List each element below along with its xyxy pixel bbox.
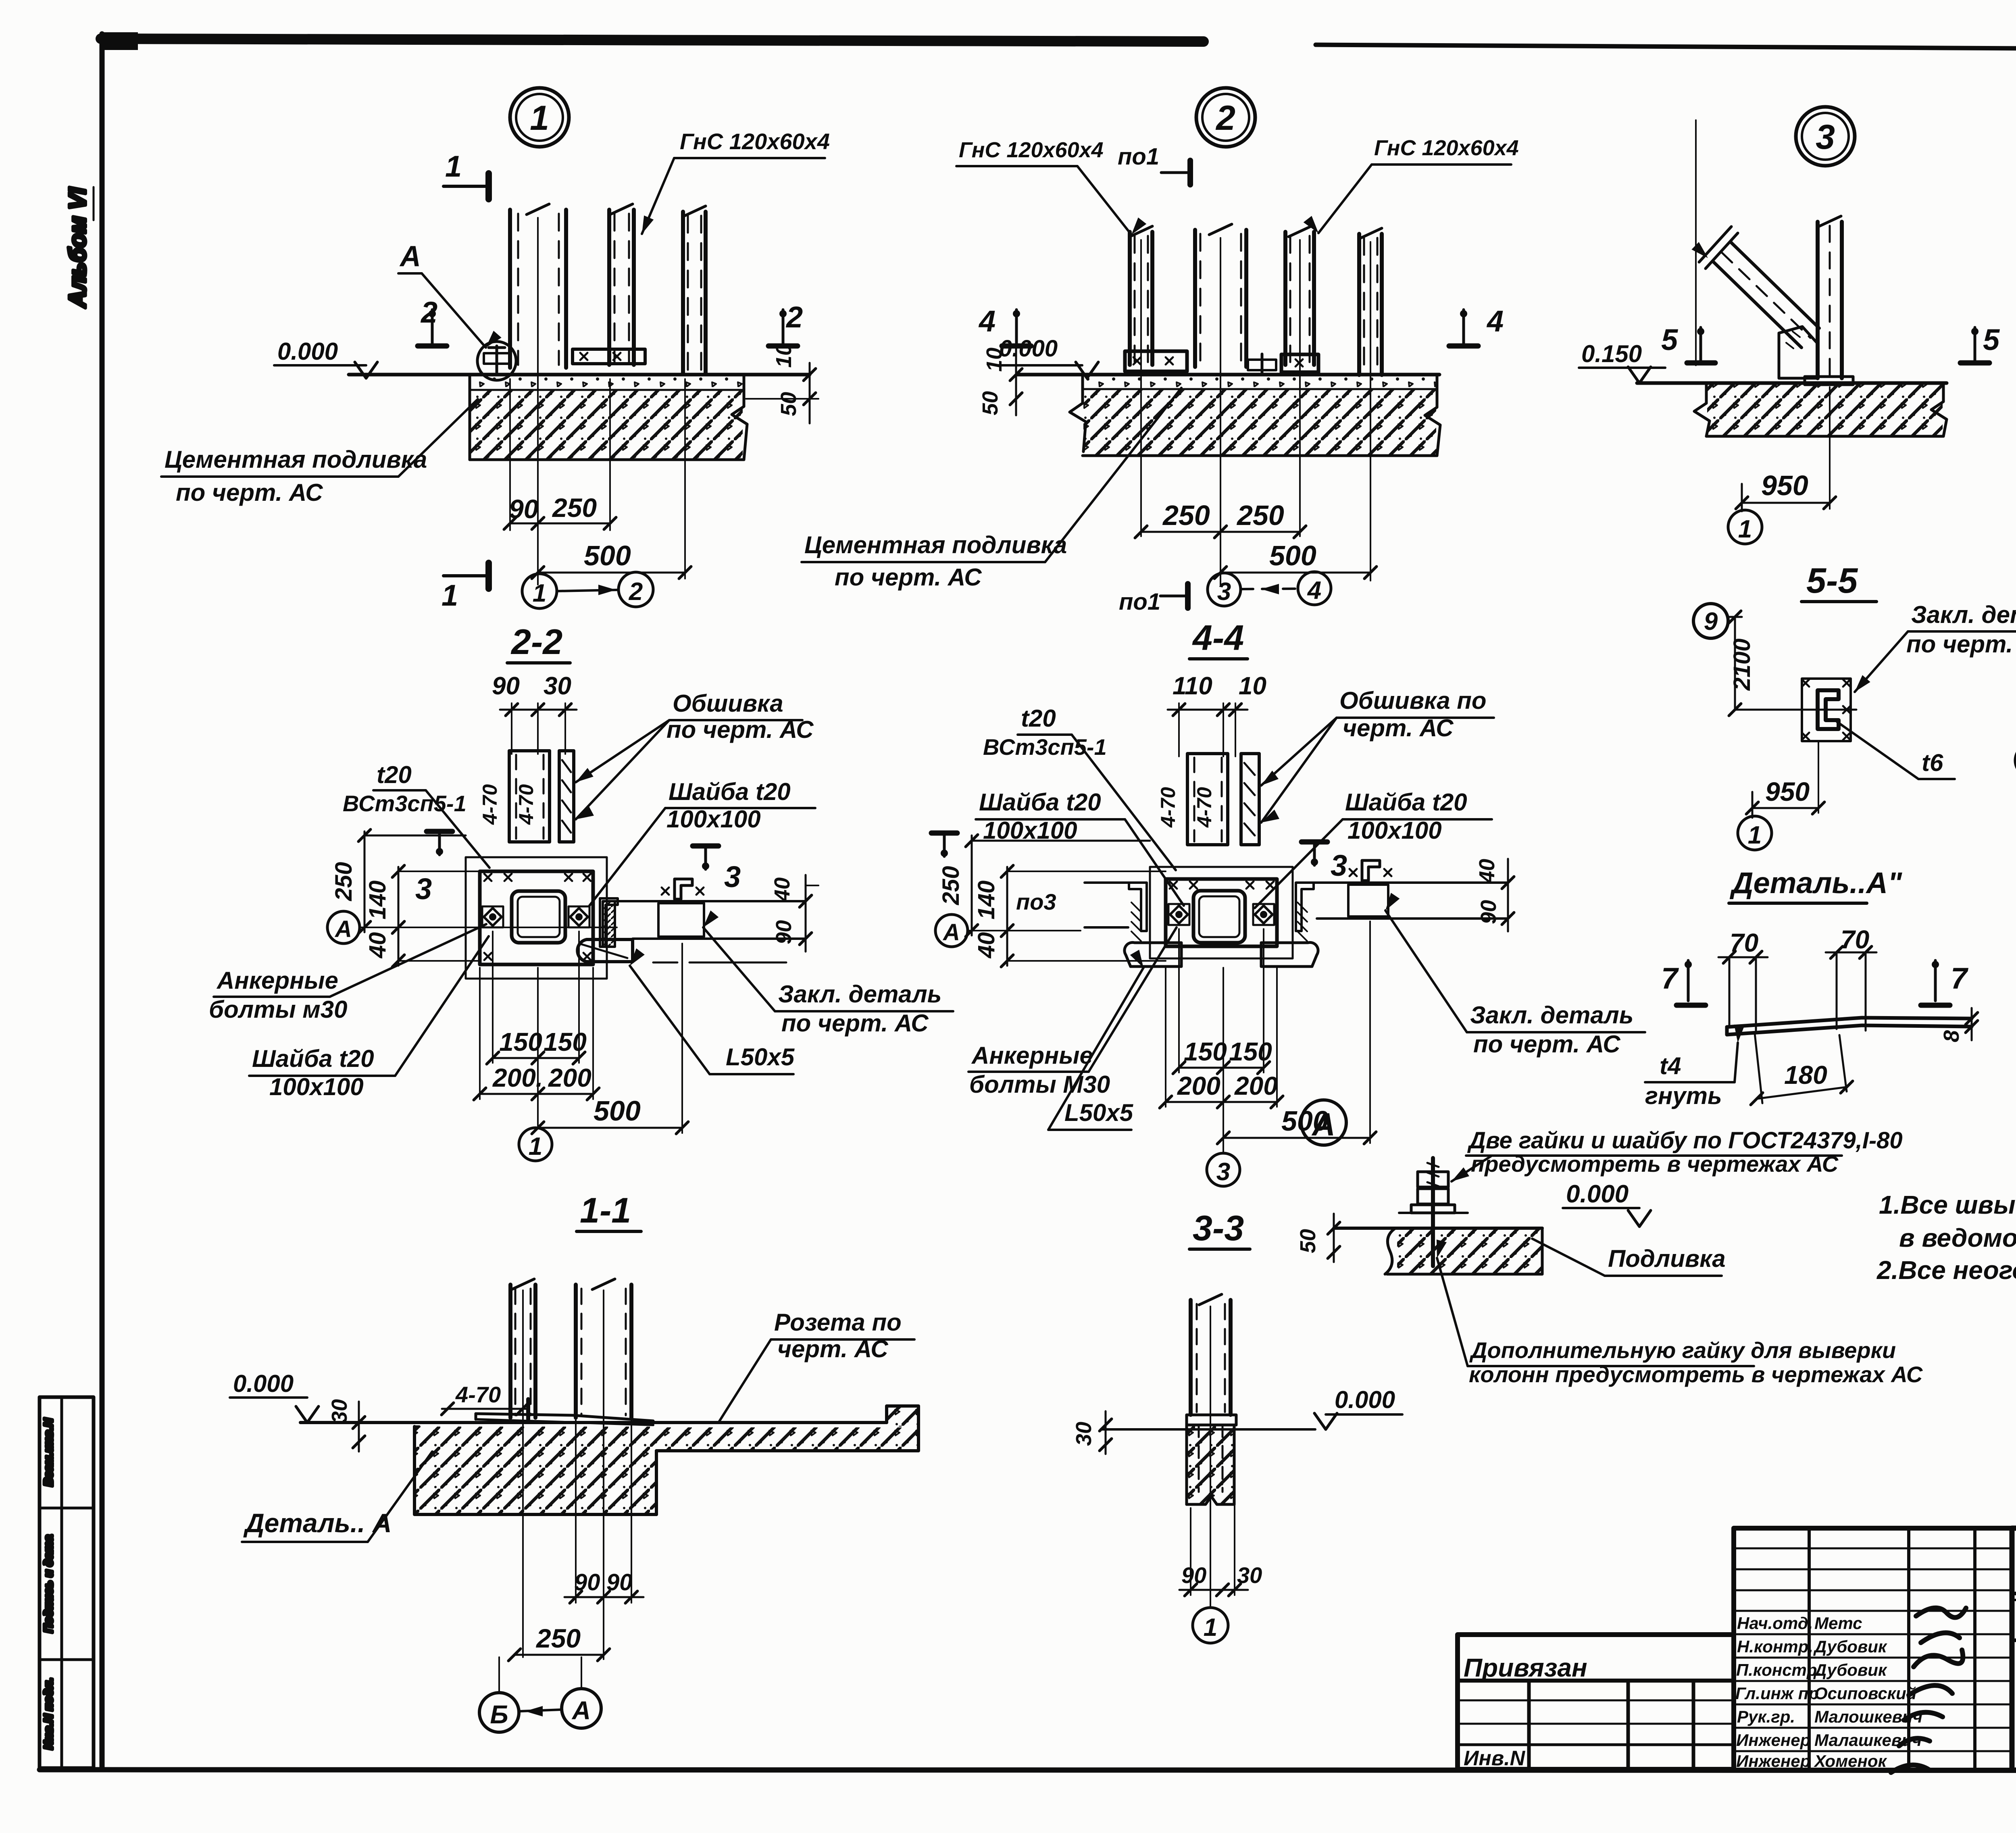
embedded plate (5-5) (1802, 679, 1851, 741)
svg-text:5-5: 5-5 (1806, 560, 1858, 600)
column axis middle (detail 2) (1220, 238, 1221, 585)
svg-text:П.констр.: П.констр. (1736, 1660, 1822, 1679)
svg-text:250: 250 (535, 1623, 581, 1653)
dimension 500 (4-4) (1369, 921, 1371, 1143)
svg-text:500: 500 (584, 540, 631, 571)
svg-text:100х100: 100х100 (269, 1073, 364, 1100)
dimension 90 30 above column (2-2) (511, 703, 512, 754)
embedded plate in plan (2-2) (658, 903, 704, 937)
svg-text:50: 50 (777, 392, 801, 416)
svg-text:4-4: 4-4 (1192, 618, 1244, 658)
svg-text:Инженер: Инженер (1736, 1731, 1810, 1750)
title band TP901 (2012, 1592, 2016, 1596)
svg-text:100х100: 100х100 (666, 806, 761, 833)
column (detail 3) (1816, 222, 1820, 378)
section mark 3 top (4-4) (931, 831, 957, 836)
svg-text:по3: по3 (1016, 889, 1056, 914)
svg-text:ВСт3сп5-1: ВСт3сп5-1 (343, 791, 467, 816)
svg-text:Анкерные: Анкерные (216, 967, 338, 994)
column axis 1 (537, 218, 539, 585)
svg-text:10: 10 (1239, 672, 1266, 700)
svg-text:200: 200 (548, 1063, 591, 1092)
embedded angle right (4-4) (1296, 883, 1314, 931)
svg-text:250: 250 (331, 862, 357, 902)
dimension 950 (5-5) (1818, 741, 1819, 813)
dimension 250 (1-1) (514, 1654, 604, 1656)
svg-text:Взам.инв.N: Взам.инв.N (42, 1418, 55, 1486)
foundation pier (1-1) (415, 1427, 656, 1514)
svg-text:250: 250 (1162, 500, 1210, 531)
svg-text:А: А (334, 916, 352, 942)
svg-text:Закл. деталь: Закл. деталь (1470, 1002, 1633, 1029)
dimension 180 (detail A) (1755, 1033, 1762, 1103)
node marker circle 3 (1796, 107, 1855, 166)
svg-text:7: 7 (1951, 962, 1969, 995)
svg-text:5: 5 (1661, 323, 1679, 356)
left margin stamp boxes (40, 1397, 94, 1768)
base plate under column 2 (573, 349, 645, 364)
svg-text:по черт. АС: по черт. АС (1473, 1031, 1621, 1058)
svg-text:3: 3 (1217, 578, 1231, 606)
floor slab lines left (4-4) (1085, 881, 1129, 884)
svg-text:3: 3 (1216, 1158, 1230, 1186)
grid bubble 3 (4-4) (1207, 1153, 1240, 1186)
grid bubble 3 (detail 2) (1208, 573, 1241, 606)
sheet bottom border (40, 1770, 2016, 1771)
dimension 250 250 (detail 2) (1141, 531, 1300, 533)
svg-text:Инженер: Инженер (1736, 1752, 1810, 1771)
svg-text:4: 4 (1486, 304, 1504, 338)
svg-text:Привязан: Привязан (1464, 1653, 1587, 1682)
svg-text:по черт. АС: по черт. АС (781, 1010, 929, 1037)
anchor bolt with nuts (node A) (1431, 1158, 1435, 1266)
column tube in plan (2-2) (512, 891, 565, 943)
svg-text:L50х5: L50х5 (726, 1044, 795, 1071)
dimension 110 10 above column (4-4) (1178, 703, 1180, 756)
channel symbol on slab (4-4) (1362, 860, 1380, 881)
svg-text:Обшивка по: Обшивка по (1339, 687, 1487, 714)
svg-text:Инв.N: Инв.N (1464, 1747, 1526, 1770)
left dims 250 140 40 (4-4) (971, 835, 973, 935)
grid bubble 1 (detail 1) (522, 574, 557, 608)
svg-text:по черт. АС: по черт. АС (835, 564, 982, 591)
svg-text:200.: 200. (492, 1063, 543, 1092)
svg-text:Деталь..А": Деталь..А" (1729, 866, 1902, 900)
vertical dimension 2100 (5-5) (1728, 616, 1742, 618)
svg-text:2-2: 2-2 (510, 622, 562, 662)
svg-text:А: А (1311, 1106, 1335, 1142)
svg-text:90: 90 (772, 920, 796, 944)
svg-text:200: 200 (1234, 1071, 1278, 1100)
cement grout strip (detail 1) (470, 376, 744, 390)
svg-text:Нач.отд.: Нач.отд. (1737, 1614, 1813, 1633)
svg-text:Деталь.. А: Деталь.. А (243, 1508, 392, 1538)
link line between bubbles 3-4 (1241, 589, 1297, 589)
svg-text:150: 150 (1229, 1037, 1272, 1066)
svg-text:Две гайки и шайбу по ГОСТ24379: Две гайки и шайбу по ГОСТ24379,I-80 (1467, 1127, 1903, 1154)
svg-text:А: А (571, 1696, 591, 1725)
link line between bubbles 1-2 (557, 590, 618, 591)
svg-text:1: 1 (1738, 515, 1752, 543)
svg-text:40: 40 (1475, 859, 1499, 883)
svg-text:180: 180 (1784, 1060, 1827, 1089)
svg-text:Шайба t20: Шайба t20 (1345, 789, 1467, 816)
svg-text:100х100: 100х100 (1347, 817, 1442, 844)
ground line (node A) (1334, 1227, 1542, 1230)
svg-text:t20: t20 (1021, 705, 1056, 732)
svg-text:Обшивка: Обшивка (673, 690, 783, 717)
svg-text:90: 90 (1477, 900, 1501, 924)
svg-text:1: 1 (1748, 821, 1762, 849)
svg-text:А: А (399, 240, 421, 273)
grid bubble 1 (5-5) (1738, 816, 1772, 850)
svg-text:950: 950 (1765, 777, 1810, 806)
svg-text:t6: t6 (1922, 749, 1943, 776)
column channel 1 of detail 1 (508, 210, 512, 368)
concrete foundation (detail 1) (471, 390, 743, 460)
svg-text:Розета по: Розета по (774, 1309, 902, 1336)
svg-text:4-70: 4-70 (515, 784, 537, 825)
svg-text:0.000: 0.000 (1566, 1180, 1629, 1208)
svg-text:3: 3 (1816, 118, 1835, 156)
column wide middle (detail 2) (1193, 230, 1197, 367)
svg-text:0.000: 0.000 (233, 1370, 294, 1397)
svg-text:50: 50 (978, 391, 1002, 415)
svg-text:1: 1 (529, 1133, 542, 1160)
svg-text:30: 30 (544, 672, 571, 700)
privyazan stamp table (1458, 1635, 1734, 1769)
svg-text:Альбом VI: Альбом VI (65, 187, 91, 308)
svg-text:1.Все швы назначать по усилиям: 1.Все швы назначать по усилиям, указанны… (1879, 1190, 2016, 1219)
grid bubble 1 (2-2) (519, 1128, 552, 1161)
node detail marker circle A (1301, 1100, 1346, 1145)
column axis 4 (detail 2) (1370, 242, 1371, 581)
svg-text:140: 140 (973, 881, 1000, 920)
svg-text:5: 5 (1983, 323, 2000, 356)
embedded detail plate below right (4-4) (1261, 942, 1318, 966)
svg-text:Шайба t20: Шайба t20 (669, 778, 791, 805)
column channel 2 of detail 1 (607, 210, 611, 365)
dimension 150 150 (2-2) (492, 931, 494, 1063)
right dims 40 90 (2-2) (805, 875, 807, 952)
dimension 200 200 (4-4) (1165, 968, 1166, 1107)
svg-text:в ведомости элементов, остальн: в ведомости элементов, остальные kf 4мм. (1899, 1223, 2016, 1252)
top-left corner blob (101, 32, 138, 50)
dimension 200 200 (2-2) (479, 968, 481, 1099)
base plate (3-3) (1187, 1415, 1236, 1425)
svg-text:по1: по1 (1118, 144, 1159, 170)
grid axis line (detail 3) (1695, 120, 1697, 365)
ground line (detail 2) (1017, 373, 1439, 377)
embedded detail plate below left (4-4) (1125, 942, 1181, 966)
base plate (detail 3) (1805, 377, 1853, 385)
anchor bolt right (2-2) (569, 906, 589, 927)
grid bubble 4 (detail 2) (1298, 572, 1331, 605)
right dims 40 90 (4-4) (1507, 859, 1509, 931)
svg-text:Дубовик: Дубовик (1813, 1660, 1887, 1679)
floor slab edge lines right (2-2) (615, 900, 806, 902)
svg-text:Б: Б (490, 1700, 508, 1729)
right column pair (1-1) (574, 1285, 578, 1418)
svg-text:Метс: Метс (1814, 1614, 1862, 1633)
svg-text:t20: t20 (377, 761, 412, 788)
dimension 90 90 (1-1) (575, 1420, 577, 1603)
svg-text:150: 150 (499, 1027, 542, 1056)
grid bubble 1 (detail 3) (1728, 510, 1762, 544)
svg-text:Шайба t20: Шайба t20 (979, 789, 1101, 816)
sheet left border (100, 34, 105, 1770)
link line A to B (1-1) (520, 1710, 561, 1711)
svg-text:90: 90 (1181, 1562, 1206, 1588)
svg-text:10: 10 (772, 344, 796, 368)
svg-text:Подпись и дата: Подпись и дата (42, 1535, 55, 1633)
svg-text:ГнС 120х60х4: ГнС 120х60х4 (680, 129, 830, 154)
svg-text:40: 40 (973, 932, 1000, 959)
anchor bolts dashed in pier (3-3) (1198, 1425, 1200, 1492)
washer at middle column (detail 2) (1248, 360, 1276, 370)
svg-text:40: 40 (770, 877, 794, 902)
svg-text:140: 140 (364, 881, 391, 920)
svg-text:30: 30 (327, 1399, 352, 1423)
embedded plate in plan (4-4) (1348, 885, 1388, 916)
left small dims 10 50 (detail 2) (1015, 348, 1017, 415)
dimension 500 (detail 1) (684, 379, 686, 579)
grid bubble B (1-1) (479, 1693, 519, 1732)
signature table row labels (1735, 1614, 1922, 1771)
anchor bolt left (2-2) (482, 906, 503, 927)
svg-text:8: 8 (1939, 1030, 1964, 1042)
svg-text:150: 150 (1184, 1037, 1227, 1066)
svg-text:500: 500 (1269, 540, 1316, 571)
svg-text:250: 250 (552, 493, 597, 523)
svg-text:болты м30: болты м30 (209, 996, 348, 1023)
grid bubble A (1-1) (562, 1689, 601, 1728)
svg-text:А: А (942, 919, 960, 946)
svg-text:Хоменок: Хоменок (1814, 1752, 1887, 1771)
ground line (detail 3) (1637, 381, 1947, 385)
svg-text:2.Все неоговоренные фасонки t: 2.Все неоговоренные фасонки t8 мм. (1876, 1256, 2016, 1285)
svg-text:Шайба t20: Шайба t20 (252, 1045, 374, 1072)
svg-text:40: 40 (364, 932, 391, 959)
svg-text:3: 3 (724, 860, 741, 894)
floor slab lines right (4-4) (1314, 881, 1508, 884)
svg-text:Инв.N подл.: Инв.N подл. (42, 1678, 55, 1750)
svg-text:L50х5: L50х5 (1064, 1099, 1134, 1126)
svg-text:4-70: 4-70 (455, 1382, 501, 1407)
column channel 4 (detail 2) (1357, 234, 1361, 375)
cement grout strip (detail 2) (1083, 376, 1437, 389)
dimension 500 (detail 2) (1220, 572, 1370, 574)
svg-text:90: 90 (606, 1569, 633, 1596)
concrete foundation (detail 3) (1707, 385, 1943, 436)
node marker circle 2 (1196, 88, 1255, 147)
svg-text:3: 3 (1331, 849, 1347, 882)
base plate t20 (4-4) (1166, 879, 1277, 946)
svg-text:4-70: 4-70 (1193, 787, 1216, 828)
axis line to plate (5-5) (1735, 709, 1856, 711)
axis bubble A left (4-4) (935, 914, 968, 947)
svg-text:3-3: 3-3 (1193, 1208, 1244, 1248)
svg-text:90: 90 (492, 672, 520, 700)
base plate t20 (2-2) (480, 871, 593, 964)
column (3-3) (1189, 1300, 1193, 1415)
channel symbol on slab (2-2) (675, 879, 692, 899)
svg-text:1: 1 (533, 579, 546, 607)
dimension 90 30 below (3-3) (1190, 1508, 1191, 1595)
gusset plate (detail 3) (1779, 327, 1818, 378)
column channels above plate (2-2) (509, 751, 550, 842)
sheet top border right segment (1316, 45, 2016, 51)
svg-text:Закл. деталь: Закл. деталь (778, 981, 941, 1008)
sheet top border left segment (101, 39, 1204, 42)
svg-text:3: 3 (415, 872, 432, 906)
svg-text:0.000: 0.000 (277, 338, 338, 365)
dimension 950 (detail 3) (1829, 387, 1831, 509)
svg-text:110: 110 (1173, 672, 1212, 700)
svg-text:Цементная подливка: Цементная подливка (804, 531, 1067, 558)
svg-text:500: 500 (594, 1095, 641, 1127)
svg-text:30: 30 (1072, 1422, 1096, 1446)
embedded angle L50x5 (2-2) (603, 901, 615, 947)
embedded detail plate below (2-2) (577, 939, 633, 962)
anchor bolt left (4-4) (1168, 904, 1189, 925)
svg-text:2100: 2100 (1729, 638, 1755, 691)
svg-text:1: 1 (445, 150, 462, 183)
svg-text:2: 2 (785, 300, 803, 334)
dimension 150 150 (4-4) (1178, 929, 1180, 1073)
svg-text:70: 70 (1841, 925, 1869, 954)
svg-text:Дополнительную гайку для вывер: Дополнительную гайку для выверки (1469, 1337, 1896, 1363)
svg-text:950: 950 (1761, 470, 1808, 501)
bent plate t4 (detail A) (1727, 1018, 1972, 1027)
svg-text:250: 250 (1236, 500, 1284, 531)
svg-text:250: 250 (938, 866, 964, 906)
svg-text:1: 1 (530, 99, 549, 137)
column channels above plate (4-4) (1187, 754, 1228, 845)
svg-text:200: 200 (1177, 1071, 1220, 1100)
signature squiggles (1891, 1608, 1966, 1773)
ground line (detail 1) (349, 373, 810, 377)
column axis down to bubble (4-4) (1223, 968, 1224, 1153)
weld x marks on plate (4-4) (1170, 881, 1177, 889)
svg-text:1: 1 (442, 579, 458, 612)
svg-text:t4: t4 (1660, 1052, 1681, 1079)
svg-text:ГнС 120х60х4: ГнС 120х60х4 (959, 138, 1104, 162)
column channel 3 of detail 1 (681, 212, 685, 374)
section mark 3 right (4-4) (1302, 839, 1327, 845)
svg-text:Осиповский: Осиповский (1814, 1684, 1916, 1703)
svg-text:болты М30: болты М30 (969, 1071, 1110, 1098)
svg-text:50: 50 (1296, 1229, 1320, 1253)
svg-text:0.150: 0.150 (1581, 340, 1642, 367)
node marker circle 1 (510, 88, 569, 147)
left column pair (1-1) (508, 1285, 512, 1418)
column channel 3 (detail 2) (1283, 232, 1287, 365)
weld x marks on plate (2-2) (484, 874, 492, 881)
left dims 250 140 40 (2-2) (364, 831, 366, 932)
svg-text:4: 4 (978, 304, 996, 338)
signature table (1734, 1528, 2012, 1770)
grid bubble 2 (detail 1) (619, 572, 653, 607)
grid bubble 9 (5-5) (1693, 604, 1728, 638)
base plate outline thin (4-4) (1150, 867, 1293, 958)
svg-text:4: 4 (1307, 577, 1321, 604)
dimension 90 250 (detail 1) (509, 379, 511, 530)
svg-text:Закл. деталь: Закл. деталь (1911, 601, 2016, 628)
svg-text:4-70: 4-70 (1157, 787, 1179, 828)
dimension 500 (2-2) (681, 944, 683, 1133)
title block middle divider (2012, 1639, 2016, 1642)
svg-text:Дубовик: Дубовик (1813, 1637, 1887, 1656)
svg-text:ГнС 120х60х4: ГнС 120х60х4 (1374, 136, 1519, 160)
rozeta bent plate (1-1) (476, 1414, 653, 1421)
svg-text:90: 90 (574, 1569, 600, 1596)
column channel 1 (detail 2) (1128, 232, 1132, 365)
svg-text:9: 9 (1704, 608, 1718, 635)
grout pad hatch (node A) (1397, 1230, 1541, 1273)
svg-text:4-70: 4-70 (479, 784, 501, 825)
thickness dim 8 (detail A) (1971, 1008, 1973, 1040)
concrete pier (3-3) (1187, 1425, 1234, 1504)
svg-text:по черт. АС: по черт. АС (176, 479, 323, 506)
svg-text:30: 30 (1237, 1562, 1262, 1588)
svg-text:90: 90 (509, 494, 539, 524)
svg-text:Гл.инж пр: Гл.инж пр (1735, 1684, 1819, 1703)
diagonal brace (detail 3) (1713, 261, 1801, 348)
base plate outline thin (2-2) (466, 857, 607, 979)
column axis 3 (detail 2) (1299, 240, 1301, 536)
svg-text:по черт. АС: по черт. АС (1906, 631, 2016, 658)
svg-text:по1: по1 (1119, 589, 1160, 615)
svg-text:150: 150 (544, 1027, 587, 1056)
floor line (1-1) (300, 1421, 887, 1424)
base plate left (detail 2) (1125, 351, 1187, 371)
svg-text:2: 2 (629, 578, 643, 606)
column axis (3-3) (1210, 1306, 1211, 1607)
grid bubble 1 (6-6) (2015, 744, 2016, 777)
svg-text:7: 7 (1661, 962, 1679, 995)
anchor bolt right (4-4) (1253, 904, 1274, 925)
svg-text:Цементная подливка: Цементная подливка (165, 446, 427, 473)
svg-text:Рук.гр.: Рук.гр. (1737, 1707, 1795, 1726)
svg-text:1: 1 (1204, 1614, 1217, 1641)
column tube in plan (4-4) (1193, 891, 1245, 943)
svg-text:Подливка: Подливка (1608, 1245, 1726, 1272)
level line (3-3) (1101, 1428, 1315, 1431)
column axis down to bubble (2-2) (537, 968, 539, 1126)
washer detail circle A (477, 342, 516, 380)
axis bubble A left (2-2) (327, 911, 360, 944)
column axis left (detail 2) (1140, 240, 1142, 536)
svg-text:Н.контр.: Н.контр. (1737, 1637, 1813, 1656)
svg-text:гнуть: гнуть (1645, 1082, 1722, 1109)
svg-text:0.000: 0.000 (1335, 1386, 1395, 1413)
column axes (1-1) (522, 1290, 524, 1657)
title block main (2012, 1528, 2016, 1770)
svg-text:1-1: 1-1 (580, 1190, 631, 1230)
svg-text:2: 2 (1215, 99, 1235, 137)
svg-text:10: 10 (982, 348, 1006, 372)
section mark 3 left (2-2) (427, 829, 452, 834)
embedded angle left (4-4) (1129, 883, 1147, 931)
right side small dims 10 50 (detail 1) (746, 398, 818, 400)
floor slab right (1-1) (656, 1427, 918, 1451)
section mark 3 right (2-2) (693, 844, 719, 849)
grid bubble 1 (3-3) (1193, 1608, 1228, 1643)
base plate right (detail 2) (1281, 354, 1318, 372)
svg-text:Анкерные: Анкерные (971, 1042, 1093, 1069)
concrete foundation (detail 2) (1083, 389, 1436, 456)
